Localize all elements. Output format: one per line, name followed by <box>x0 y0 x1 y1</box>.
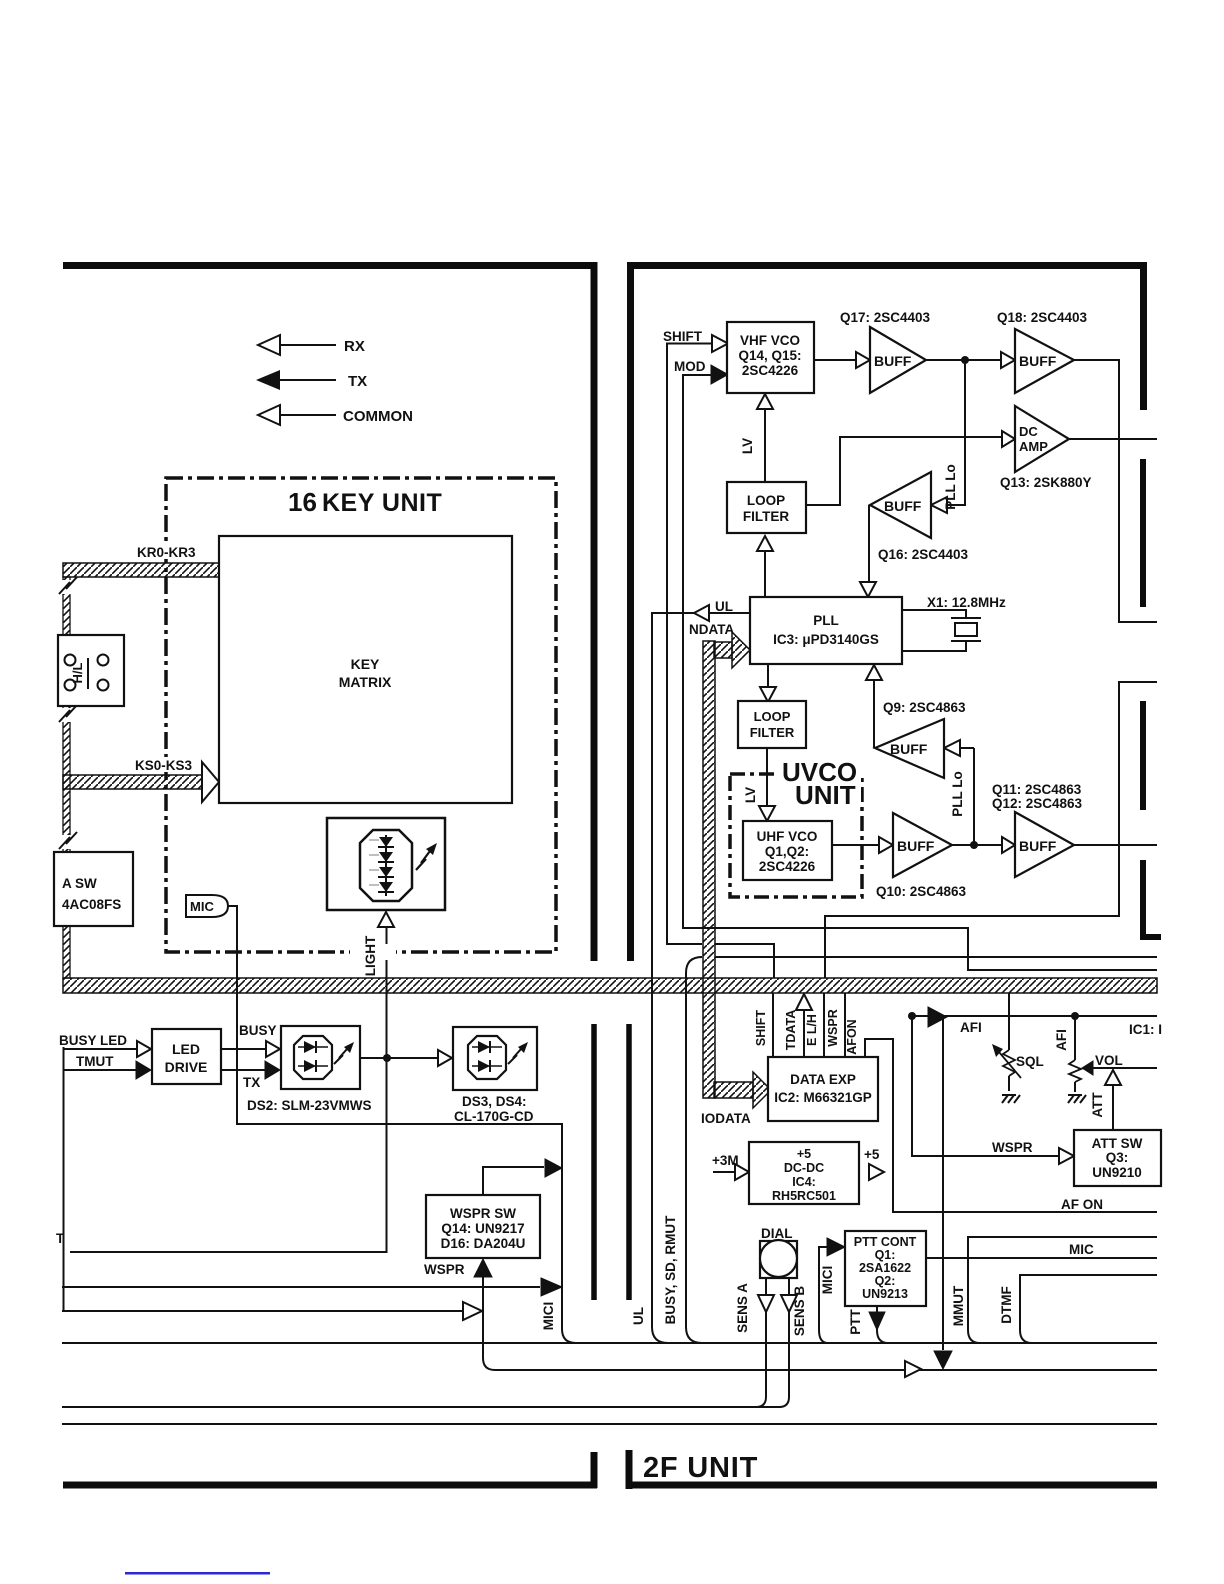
svg-text:DRIVE: DRIVE <box>165 1059 208 1075</box>
arrow BUSY LED into LED DRIVE <box>137 1041 151 1057</box>
label LIGHT <box>350 935 396 976</box>
wire VHF VCO out to BUFF Q17 <box>814 359 856 361</box>
wire BUFF Q17 out to BUFF Q18 <box>926 359 1001 361</box>
label AFON vertical <box>845 1019 859 1054</box>
label AFI vertical <box>1054 1029 1069 1051</box>
box DS2 <box>281 1026 360 1089</box>
svg-text:AMP: AMP <box>1019 439 1048 454</box>
svg-text:MICI: MICI <box>541 1302 556 1331</box>
wire 2F line y1407 <box>62 1406 781 1408</box>
arrow into LOOP FILTER bottom <box>757 536 773 551</box>
box PTT CONT <box>845 1231 926 1306</box>
svg-text:UL: UL <box>631 1307 646 1325</box>
wire PLL Lo upper feed to BUFF Q16 <box>948 360 965 505</box>
svg-text:UN9213: UN9213 <box>862 1287 908 1301</box>
svg-text:TX: TX <box>348 373 367 390</box>
wire left edge riser <box>63 1047 65 1311</box>
arrow TDATA up into bus <box>796 994 812 1010</box>
arrow MICI into PTT CONT <box>827 1238 845 1256</box>
wire BUFF Q16 out down to PLL <box>868 505 870 581</box>
svg-text:A SW: A SW <box>62 876 97 891</box>
label Q16 <box>878 547 969 562</box>
label PTT vertical <box>848 1308 863 1334</box>
wire PLL to LOOP FILTER bottom arrow <box>764 551 766 597</box>
wire from y944 into main bus <box>715 944 774 978</box>
wire LIGHT down and across to left <box>70 927 387 1252</box>
svg-text:X1: 12.8MHz: X1: 12.8MHz <box>927 595 1006 610</box>
svg-text:BUFF: BUFF <box>897 838 935 854</box>
svg-text:IC2: M66321GP: IC2: M66321GP <box>774 1090 872 1105</box>
UVCO UNIT dash-dot box <box>730 774 862 897</box>
svg-text:UNIT: UNIT <box>795 780 856 810</box>
frame: 2F UNIT right tick <box>626 1450 633 1489</box>
label MMUT vertical <box>951 1285 966 1326</box>
amp BUFF Q10 <box>893 813 952 877</box>
arrow ATT up <box>1105 1070 1121 1085</box>
svg-text:IC3: μPD3140GS: IC3: μPD3140GS <box>773 632 879 647</box>
bus: left edge vertical band <box>63 577 70 978</box>
svg-text:BUSY: BUSY <box>239 1023 277 1038</box>
break mark lower <box>59 832 77 849</box>
arrow +3M into DC-DC <box>735 1164 749 1180</box>
svg-text:MIC: MIC <box>190 899 214 914</box>
arrow LIGHT up <box>378 912 394 927</box>
svg-text:SQL: SQL <box>1016 1054 1044 1069</box>
svg-text:Q11: 2SC4863: Q11: 2SC4863 <box>992 782 1082 797</box>
label ATT vertical <box>1090 1092 1105 1118</box>
wire PLL bottom to LOOP FILTER 2 <box>767 664 769 687</box>
arrow into BUFF Q18 <box>1001 352 1015 368</box>
box WSPR SW <box>426 1195 540 1258</box>
svg-text:BUFF: BUFF <box>1019 353 1057 369</box>
arrow TX into DS2 <box>265 1061 280 1079</box>
box PLL IC3 <box>750 597 902 664</box>
arrow +5 out of DC-DC <box>869 1164 884 1180</box>
svg-text:SHIFT: SHIFT <box>663 329 703 344</box>
wire LOOP FILTER to DC AMP <box>806 437 1002 505</box>
arrow into BUFF Q9 <box>944 740 960 756</box>
wire BUFF Q18 out to right edge <box>1074 360 1157 622</box>
svg-text:Q3:: Q3: <box>1106 1150 1129 1165</box>
svg-text:Q1,Q2:: Q1,Q2: <box>765 844 809 859</box>
svg-text:UN9210: UN9210 <box>1092 1165 1142 1180</box>
label KR0-KR3 <box>135 544 203 560</box>
wire WSPR drop to DATA EXP <box>844 993 846 1057</box>
amp BUFF Q18 <box>1015 329 1074 393</box>
svg-text:AFON: AFON <box>845 1019 859 1054</box>
label UL <box>715 599 733 614</box>
label SHIFT vertical <box>754 1010 768 1046</box>
wire WSPR down to 2F line <box>483 1277 1157 1370</box>
svg-text:+3M: +3M <box>712 1153 739 1168</box>
svg-text:KEY UNIT: KEY UNIT <box>322 489 442 517</box>
label MICI at WSPR SW <box>541 1302 556 1331</box>
svg-text:TDATA: TDATA <box>784 1010 798 1051</box>
wire 2F line y1311 <box>62 1310 462 1312</box>
label NDATA <box>689 622 734 637</box>
wire MIC to right edge <box>926 1257 1157 1259</box>
svg-text:VOL: VOL <box>1095 1053 1123 1068</box>
label +5 out <box>864 1147 880 1162</box>
wire +3M input <box>713 1171 734 1173</box>
arrow SENS A down <box>758 1295 774 1312</box>
wire AFI drop to 2F <box>942 1017 944 1350</box>
wire TMUT input <box>63 1069 136 1071</box>
svg-text:T: T <box>56 1231 65 1246</box>
frame: right border segment 3 <box>1140 701 1146 810</box>
label 2F UNIT <box>643 1452 758 1484</box>
DIAL <box>760 1226 797 1278</box>
svg-text:FILTER: FILTER <box>750 725 795 740</box>
svg-text:KR0-KR3: KR0-KR3 <box>137 545 196 560</box>
svg-text:FILTER: FILTER <box>743 509 789 524</box>
junction node AFI left <box>908 1012 916 1020</box>
potentiometer SQL <box>992 1044 1044 1078</box>
arrow into DS3 <box>438 1050 452 1066</box>
arrow WSPR up into WSPR SW <box>474 1259 492 1277</box>
svg-text:KEY: KEY <box>351 656 380 672</box>
legend TX <box>256 370 367 390</box>
svg-text:WSPR: WSPR <box>424 1262 465 1277</box>
wire LED DRIVE outputs <box>221 1049 265 1070</box>
svg-text:ATT SW: ATT SW <box>1092 1136 1143 1151</box>
arrow UL out of PLL <box>694 605 709 621</box>
svg-text:Q13: 2SK880Y: Q13: 2SK880Y <box>1000 475 1092 490</box>
svg-text:Q14: UN9217: Q14: UN9217 <box>441 1221 524 1236</box>
svg-text:KS0-KS3: KS0-KS3 <box>135 758 193 773</box>
wire BUSY,SD,RMUT from IODATA bus down to 2F unit <box>686 957 702 1343</box>
box DATA EXP <box>768 1057 878 1121</box>
frame: right unit right border vertical top segment <box>1140 262 1147 410</box>
svg-text:COMMON: COMMON <box>343 408 413 425</box>
svg-text:AF ON: AF ON <box>1061 1197 1103 1212</box>
amp BUFF Q16 <box>870 472 931 538</box>
box LOOP FILTER 1 <box>727 482 806 533</box>
svg-text:MIC: MIC <box>1069 1242 1094 1257</box>
label T <box>56 1231 65 1246</box>
MIC tag <box>186 895 228 917</box>
svg-text:DC: DC <box>1019 424 1038 439</box>
arrow into BUFF Q16 <box>931 497 947 513</box>
box UHF VCO <box>743 821 832 880</box>
label WSPR vertical <box>826 1009 840 1047</box>
box ATT SW <box>1074 1130 1161 1186</box>
arrow TMUT into LED DRIVE <box>136 1061 151 1079</box>
label BUSY <box>239 1023 277 1038</box>
wire SHIFT into VHF VCO and down to bus area <box>667 344 712 945</box>
break mark mid <box>59 705 77 722</box>
arrow into BUFF Q17 <box>856 352 870 368</box>
wire E L/H drop to DATA EXP <box>823 993 825 1057</box>
svg-text:BUFF: BUFF <box>874 353 912 369</box>
frame: right unit border top <box>628 262 1147 269</box>
wire BUFF Q11 out to right edge <box>1074 844 1157 846</box>
label UL vertical <box>631 1307 646 1325</box>
svg-text:PLL Lo: PLL Lo <box>950 771 965 817</box>
LED block box <box>327 818 445 910</box>
wire SHIFT drop to DATA EXP <box>772 993 774 1057</box>
svg-text:LV: LV <box>743 787 758 803</box>
svg-text:TX: TX <box>243 1075 260 1090</box>
frame: 2F UNIT bottom-left border <box>63 1482 597 1489</box>
label LV lower <box>743 787 758 803</box>
svg-text:DTMF: DTMF <box>999 1286 1014 1324</box>
label WSPR to ATT SW <box>992 1140 1033 1155</box>
wire SENS B <box>779 1278 789 1407</box>
wire MMUT <box>968 1237 1157 1343</box>
box KEY MATRIX <box>219 536 512 803</box>
svg-text:PLL: PLL <box>813 613 839 628</box>
wire MOD into VHF VCO, down and across to right edge <box>683 375 1157 970</box>
label LV upper <box>740 438 755 454</box>
svg-text:LIGHT: LIGHT <box>363 935 378 976</box>
amp BUFF Q17 <box>870 327 926 393</box>
wires (thin) <box>62 344 1157 1425</box>
wire WSPR to ATT SW <box>912 1016 1058 1156</box>
box DC-DC IC4 <box>749 1142 859 1204</box>
wire VOL line <box>1093 1067 1157 1069</box>
amp BUFF Q9 <box>875 719 944 778</box>
svg-text:UHF VCO: UHF VCO <box>757 829 818 844</box>
label AFI <box>960 1020 982 1035</box>
svg-text:WSPR SW: WSPR SW <box>450 1206 516 1221</box>
svg-text:MMUT: MMUT <box>951 1285 966 1326</box>
wire PTT down <box>877 1306 888 1343</box>
label PLL Lo lower <box>950 771 965 817</box>
arrow BUFF Q9 into PLL <box>866 665 882 680</box>
junction node DS2/DS3 light <box>383 1054 391 1062</box>
svg-text:WSPR: WSPR <box>992 1140 1033 1155</box>
ground VOL <box>1068 1095 1086 1103</box>
svg-text:4AC08FS: 4AC08FS <box>62 897 121 912</box>
svg-text:SHIFT: SHIFT <box>754 1010 768 1046</box>
arrow WSPR into ATT SW <box>1059 1148 1074 1164</box>
svg-text:2SC4226: 2SC4226 <box>759 859 816 874</box>
wire loop x825-x1119 to right edge <box>825 682 1157 978</box>
wire UL from PLL to 2F unit <box>652 613 750 1343</box>
open arrows <box>137 335 1121 1377</box>
wire UHF VCO out to BUFF Q10 <box>832 844 878 846</box>
svg-text:LOOP: LOOP <box>747 493 785 508</box>
svg-text:RH5RC501: RH5RC501 <box>772 1189 836 1203</box>
svg-text:PLL Lo: PLL Lo <box>943 464 958 510</box>
wire MICI up to PTT CONT <box>819 1247 828 1343</box>
arrow into BUFF Q10 <box>879 837 893 853</box>
arrow LV into VHF VCO <box>757 394 773 409</box>
label PLL Lo upper <box>943 464 958 510</box>
svg-text:Q9: 2SC4863: Q9: 2SC4863 <box>883 700 966 715</box>
label SHIFT <box>663 329 703 344</box>
crystal X1 <box>951 618 981 641</box>
bus: KR0-KR3 <box>63 563 219 577</box>
bus: vertical IODATA bus <box>703 641 715 1098</box>
svg-text:Q16: 2SC4403: Q16: 2SC4403 <box>878 547 969 562</box>
bus: main horizontal IO bus <box>63 978 1157 993</box>
wire SQL ground lead <box>1008 1076 1010 1091</box>
16KEY UNIT dash-dot box <box>166 478 556 952</box>
svg-text:DC-DC: DC-DC <box>784 1161 824 1175</box>
frame: right unit left lower vertical segment <box>626 1024 632 1300</box>
svg-text:LED: LED <box>172 1041 200 1057</box>
junction node AFI right <box>1071 1012 1079 1020</box>
wire 2F line y1424 <box>62 1423 1157 1425</box>
svg-text:H/L: H/L <box>70 662 85 683</box>
label TDATA vertical <box>784 1010 798 1051</box>
junction node Q10/Q11 PLL Lo <box>970 841 978 849</box>
frame: right border bottom corner <box>1140 860 1161 937</box>
arrow BUSY into DS2 <box>266 1041 280 1057</box>
svg-text:Q18: 2SC4403: Q18: 2SC4403 <box>997 310 1088 325</box>
arrow AFI down onto 2F line <box>934 1351 952 1369</box>
label KS0-KS3 <box>133 757 201 773</box>
svg-text:NDATA: NDATA <box>689 622 734 637</box>
wire BUFF Q10 out to BUFF Q11 <box>952 844 1002 846</box>
legend COMMON <box>258 405 413 425</box>
wire LV line LOOP FILTER to VHF VCO <box>764 408 766 482</box>
svg-text:Q10: 2SC4863: Q10: 2SC4863 <box>876 884 967 899</box>
svg-text:TMUT: TMUT <box>76 1054 114 1069</box>
label SENS A vertical <box>735 1283 750 1333</box>
box LED DRIVE <box>152 1029 221 1084</box>
label Q9 <box>883 700 966 715</box>
svg-text:BUFF: BUFF <box>890 741 928 757</box>
box H/L switch <box>58 635 124 706</box>
wire VOL leads <box>1074 1016 1076 1092</box>
frame: 2F UNIT left tick <box>591 1452 598 1488</box>
wire SENS A <box>756 1278 766 1407</box>
label +3M <box>712 1153 739 1168</box>
svg-text:IC1: I: IC1: I <box>1129 1022 1162 1037</box>
box LOOP FILTER 2 <box>738 701 806 748</box>
label Q10 <box>876 884 967 899</box>
svg-text:+5: +5 <box>864 1147 880 1162</box>
junction node Q17/Q18 <box>961 356 969 364</box>
label IODATA <box>701 1111 751 1126</box>
svg-text:BUFF: BUFF <box>1019 838 1057 854</box>
arrow on line y1369 <box>905 1361 921 1377</box>
break mark top <box>59 577 77 594</box>
wire BUFF Q9 up into PLL <box>873 679 875 748</box>
label WSPR lower <box>424 1262 465 1277</box>
label IC1 <box>1129 1022 1162 1037</box>
arrow BUFF Q16 into PLL top <box>860 582 876 597</box>
svg-text:RX: RX <box>344 338 365 355</box>
arrow MOD into VHF VCO <box>711 365 728 384</box>
label DS2 <box>247 1098 372 1113</box>
svg-text:SENS B: SENS B <box>792 1286 807 1337</box>
frame: left unit lower vertical segment <box>591 1024 597 1300</box>
arrow AFI right <box>928 1007 947 1027</box>
label TMUT <box>76 1054 114 1069</box>
svg-text:DS2: SLM-23VMWS: DS2: SLM-23VMWS <box>247 1098 372 1113</box>
svg-text:+5: +5 <box>797 1147 811 1161</box>
label MICI vertical PTT <box>820 1266 835 1295</box>
frame: 16KEY/left unit border top <box>63 262 597 269</box>
label Q17 <box>840 310 931 325</box>
wire MIC tag down to MICI line <box>228 906 576 1343</box>
ground SQL <box>1002 1095 1020 1103</box>
frame: left unit right border vertical <box>591 262 598 961</box>
svg-text:LOOP: LOOP <box>754 709 791 724</box>
label BUSY LED <box>59 1033 127 1048</box>
wire PLL to crystal X1 <box>902 610 966 651</box>
svg-text:Q17: 2SC4403: Q17: 2SC4403 <box>840 310 931 325</box>
legend RX <box>258 335 365 355</box>
label AF ON <box>1061 1197 1103 1212</box>
wire BUSY LED input <box>63 1048 136 1050</box>
amp BUFF Q11 Q12 <box>1015 812 1074 877</box>
svg-text:AFI: AFI <box>960 1020 982 1035</box>
wire net at y957 to right edge <box>715 956 1157 958</box>
svg-text:PTT: PTT <box>848 1308 863 1334</box>
arrow into BUFF Q11 <box>1002 837 1015 853</box>
potentiometer VOL <box>1069 1053 1123 1082</box>
arrow LV into UHF VCO <box>759 806 775 821</box>
arrow on line y1311 <box>463 1302 482 1320</box>
wire LV line LOOP FILTER2 to UHF VCO <box>766 748 768 806</box>
box A SW <box>54 852 133 926</box>
wire TDATA drop to DATA EXP <box>803 1010 805 1057</box>
label MIC line <box>1069 1242 1094 1257</box>
svg-text:DIAL: DIAL <box>761 1226 793 1241</box>
frame: right unit left border vertical <box>627 262 634 961</box>
wire DS2 to DS3 <box>360 1057 437 1059</box>
svg-text:DS3, DS4:: DS3, DS4: <box>462 1094 527 1109</box>
svg-text:PTT CONT: PTT CONT <box>854 1235 917 1249</box>
svg-text:CL-170G-CD: CL-170G-CD <box>454 1109 534 1124</box>
svg-text:MICI: MICI <box>820 1266 835 1295</box>
wire SQL drop from bus <box>1008 993 1010 1050</box>
svg-text:2SC4226: 2SC4226 <box>742 363 799 378</box>
svg-text:BUSY LED: BUSY LED <box>59 1033 127 1048</box>
wire PLL Lo lower feed to BUFF Q9 <box>960 748 974 845</box>
svg-text:SENS A: SENS A <box>735 1283 750 1333</box>
label DS3 DS4 <box>454 1094 534 1124</box>
svg-text:Q1:: Q1: <box>875 1248 896 1262</box>
label Q13 <box>1000 475 1092 490</box>
svg-text:Q14, Q15:: Q14, Q15: <box>738 348 801 363</box>
svg-text:Q12: 2SC4863: Q12: 2SC4863 <box>992 796 1083 811</box>
wire DC AMP out to right edge <box>1069 438 1157 440</box>
blue artifact line <box>125 1572 270 1575</box>
svg-text:16: 16 <box>288 487 317 517</box>
label UVCO UNIT <box>779 757 861 810</box>
arrow line1287 into MICI line <box>541 1278 562 1296</box>
wire ATT riser <box>1112 1085 1114 1130</box>
svg-text:IC4:: IC4: <box>792 1175 816 1189</box>
arrow WSPR SW into MICI line <box>545 1159 562 1177</box>
svg-text:Q2:: Q2: <box>875 1274 896 1288</box>
arrow SHIFT into VHF VCO <box>712 335 728 352</box>
bus: KS0-KS3 with arrow <box>63 762 219 802</box>
label Q18 <box>997 310 1088 325</box>
label TX <box>243 1075 260 1090</box>
svg-text:WSPR: WSPR <box>826 1009 840 1047</box>
label DTMF vertical <box>999 1286 1014 1324</box>
svg-text:BUFF: BUFF <box>884 498 922 514</box>
LED array DS1 octagon <box>360 830 412 901</box>
frame: right border segment 2 <box>1140 459 1146 607</box>
arrow PTT down <box>869 1312 885 1330</box>
svg-text:2F UNIT: 2F UNIT <box>643 1452 758 1484</box>
wire AFON from DATA EXP to AF ON line <box>865 1039 1157 1212</box>
filled arrows <box>136 365 1093 1369</box>
arrow into DC AMP <box>1002 431 1015 447</box>
arrow PLL into LOOP FILTER 2 <box>760 687 776 702</box>
bus: IODATA branch arrow into DATA EXP <box>714 1072 771 1108</box>
wire 2F line y1287 <box>62 1286 540 1288</box>
svg-text:VHF VCO: VHF VCO <box>740 333 800 348</box>
